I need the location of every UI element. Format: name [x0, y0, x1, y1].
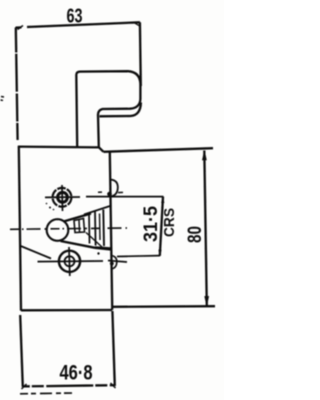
svg-text:46·8: 46·8	[60, 362, 93, 385]
bottom screw hole outer circle	[59, 251, 80, 272]
46.8 dimension line	[23, 385, 115, 386]
front plate: left edge	[19, 147, 21, 311]
svg-text:80: 80	[185, 226, 206, 243]
scan blob at bottom bump crossing	[110, 262, 114, 266]
svg-text:CRS: CRS	[161, 208, 178, 237]
bottom hole centerline horizontal	[38, 260, 104, 263]
CRS dimension arrow bottom	[159, 250, 162, 256]
pivot clip inner line	[78, 220, 81, 233]
bottom hole centerline vertical	[68, 247, 71, 276]
top hole centerline horizontal	[45, 196, 80, 198]
barrel spring line 2	[94, 212, 97, 246]
front plate: right edge	[110, 152, 112, 307]
bottom screw hole inner circle	[65, 256, 75, 266]
front plate: top edge right part / 80 extension line	[104, 148, 214, 152]
top screw hole outer circle	[53, 188, 72, 207]
hook head inner contour and stem right edge	[79, 71, 140, 147]
hook stem left edge	[76, 72, 79, 147]
pivot clip detail	[74, 219, 85, 233]
barrel bottom edge	[95, 248, 111, 249]
CRS dimension line vertical	[160, 197, 163, 256]
dimension 63 arrow left	[18, 26, 24, 30]
barrel spring line 3	[99, 214, 102, 241]
stray dashed line below 46.8	[20, 392, 75, 395]
front plate: bottom jog	[111, 307, 114, 310]
svg-text:31·5: 31·5	[141, 206, 162, 242]
46.8 dimension arrow left	[22, 384, 27, 389]
46.8 left extension line	[20, 315, 23, 387]
top hole centerline vertical	[61, 185, 64, 211]
centerline dots near bump	[98, 191, 123, 194]
dimension 63 arrow right	[135, 23, 140, 26]
lever round end circle	[47, 219, 69, 241]
lever top edge	[64, 214, 92, 222]
top screw hole inner circle	[58, 192, 68, 202]
lever bottom edge	[61, 241, 111, 250]
barrel spring line 4	[102, 210, 105, 247]
top view: left edge	[16, 28, 18, 141]
bottom hole centerline extension to CRS dimension	[108, 256, 160, 262]
front plate: bottom extension line for 80	[112, 305, 215, 308]
front plate: top edge left part	[18, 145, 99, 148]
svg-text:63: 63	[67, 6, 83, 28]
lever centerline dash-dot	[10, 228, 127, 229]
left margin scan speck	[1, 97, 5, 101]
screw head bump bottom (side view)	[111, 256, 117, 269]
46.8 right extension line	[112, 311, 114, 386]
top view: top edge (dimension line for 63)	[16, 22, 141, 27]
barrel top edge	[84, 206, 110, 215]
46.8 dimension arrow right	[111, 383, 116, 388]
lever alternate-position diagonal	[20, 246, 52, 259]
speck below barrel	[97, 252, 99, 254]
80 dimension arrow bottom	[205, 296, 209, 305]
front plate: top edge jog	[99, 147, 104, 151]
80 dimension arrow top	[202, 151, 206, 160]
80 dimension line vertical	[204, 151, 207, 306]
screw head bump top (side view)	[110, 180, 118, 197]
barrel inner diagonal	[86, 233, 102, 248]
top hole centerline extension to CRS dimension	[86, 196, 163, 198]
CRS dimension arrow top	[161, 197, 164, 203]
front plate: bottom edge	[21, 309, 112, 312]
scan blob at top bump crossing	[107, 192, 112, 197]
barrel spring line 1	[88, 213, 91, 244]
top view: right edge	[139, 22, 142, 86]
hook head outer rolled lip	[100, 103, 141, 117]
specks near top hole	[49, 207, 51, 209]
